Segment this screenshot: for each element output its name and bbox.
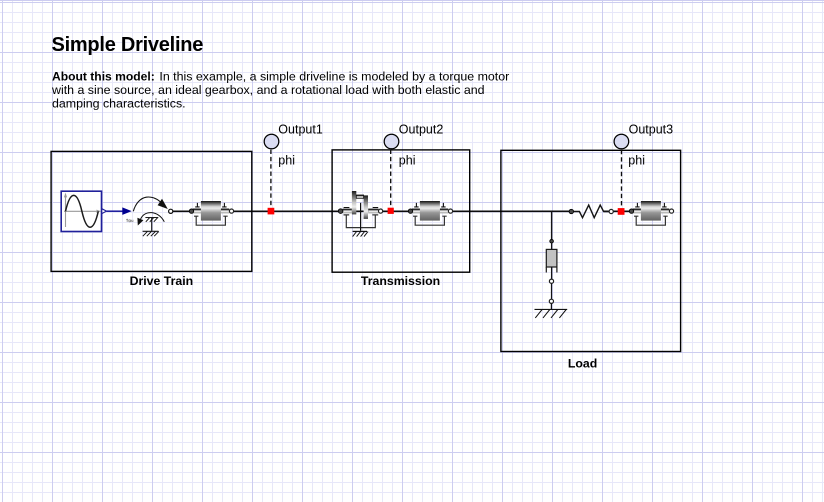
svg-text:Output2: Output2 [399,122,444,136]
svg-text:Output1: Output1 [278,122,323,136]
svg-text:phi: phi [278,153,295,167]
svg-text:phi: phi [628,153,645,167]
svg-text:phi: phi [399,153,416,167]
svg-text:Drive Train: Drive Train [130,274,194,288]
svg-text:Load: Load [568,356,597,370]
svg-text:About this model:In this examp: About this model:In this example, a simp… [52,69,509,83]
svg-text:with a sine source, an ideal g: with a sine source, an ideal gearbox, an… [51,83,485,97]
svg-text:Simple Driveline: Simple Driveline [52,34,204,56]
svg-text:Transmission: Transmission [361,274,440,288]
svg-text:Output3: Output3 [629,123,674,137]
svg-text:damping characteristics.: damping characteristics. [52,97,186,111]
